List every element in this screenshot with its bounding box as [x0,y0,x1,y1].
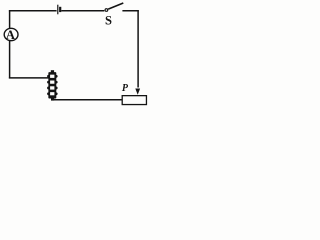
coil turn 1 side bulges [47,75,50,78]
battery cell: long thin positive plate [57,5,59,15]
coil turn 4 side bulges [47,92,50,95]
wire top-right (battery to switch) [61,10,104,12]
wire left vertical upper (corner to ammeter) [9,10,11,28]
coil L (solenoid with 4 turns) [47,70,58,100]
coil turn 3 side bulges [47,87,50,90]
wire switch to top-right corner [122,10,138,12]
battery cell: short thick negative plate [59,7,61,12]
coil body [48,72,56,98]
wire bottom-left horizontal (to coil) [9,77,49,79]
coil turn 1 window [50,75,54,78]
svg-text:S: S [105,14,112,28]
wire right vertical (to rheostat arrow) [137,10,139,87]
ammeter A body circle [4,28,18,40]
switch S pivot circle [105,9,108,12]
switch S lever (open) [108,3,123,9]
svg-text:A: A [6,28,16,42]
coil turn 3 window [50,86,54,89]
wire bottom horizontal (coil to rheostat) [54,99,122,101]
svg-text:P: P [122,83,129,94]
rheostat slider arrowhead [135,89,140,95]
coil bottom lead nub [51,98,54,100]
wire top-left horizontal (battery left lead) [9,10,57,12]
coil turn 2 window [50,81,54,84]
coil turn 2 side bulges [47,81,50,84]
rheostat resistor body box [122,96,146,105]
coil turn 4 window [50,92,54,95]
coil top lead nub [51,70,54,73]
wire left vertical lower (ammeter to bottom corner) [9,41,11,79]
